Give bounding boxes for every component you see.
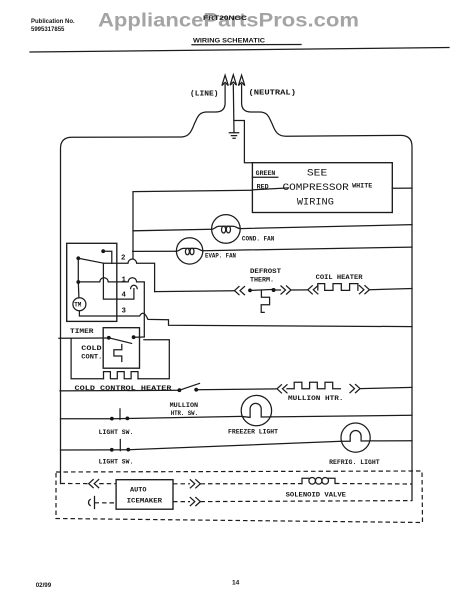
svg-text:Publication No.: Publication No.: [31, 19, 75, 25]
defrost thermostat left dot: [248, 289, 252, 293]
auto icemaker box: [116, 480, 173, 510]
wire pivot to TM: [77, 282, 80, 298]
wire row A right dashed: [173, 483, 190, 485]
svg-text:REFRIG. LIGHT: REFRIG. LIGHT: [329, 459, 380, 466]
wire from blade tip down to row 4: [103, 263, 133, 299]
green terminal line: [252, 176, 277, 178]
wire between pivots: [77, 258, 79, 282]
cold control switch blade: [109, 338, 132, 344]
svg-text:TM: TM: [74, 302, 82, 309]
wire left rail to cold control switch: [59, 337, 109, 339]
light switch 1 left dot: [110, 417, 114, 421]
svg-text:02/99: 02/99: [36, 582, 52, 589]
timer blade upper: [78, 258, 103, 263]
coil heater element: [318, 284, 358, 291]
wire defrost row from timer 2: [155, 290, 235, 293]
svg-text:AUTO: AUTO: [130, 486, 147, 493]
svg-text:COIL HEATER: COIL HEATER: [316, 274, 363, 281]
solenoid valve coil: [302, 478, 335, 483]
wire defrost to coil heater: [291, 289, 308, 291]
svg-text:(LINE): (LINE): [190, 91, 219, 99]
defrost thermostat sensing step: [261, 290, 269, 312]
svg-text:WIRING: WIRING: [297, 197, 334, 208]
wire freezer light row: [61, 418, 112, 420]
svg-text:TIMER: TIMER: [70, 328, 95, 336]
svg-text:1: 1: [122, 277, 127, 285]
wire freezer light to right rail: [272, 415, 412, 417]
title underline: [192, 44, 301, 46]
wire: ground branch to compressor green: [234, 121, 252, 163]
wire: line prong to left rail, down left side: [61, 85, 226, 484]
defrost thermostat right dot: [272, 288, 276, 292]
compressor box: [252, 163, 392, 213]
connector chevrons left of mullion heater: [277, 385, 287, 393]
connector chevrons row A right: [190, 480, 200, 488]
wire coil heater to right rail: [369, 289, 412, 290]
light switch 1 right dot: [126, 417, 130, 421]
wire between dots: [112, 449, 129, 451]
wire icemaker row A dashed: [61, 483, 89, 485]
wire refrig light to right rail: [370, 440, 412, 442]
wire to chevrons right: [274, 289, 281, 291]
plug prong NEUTRAL arrowhead: [238, 75, 244, 85]
svg-text:GREEN: GREEN: [256, 170, 276, 177]
cold control heater element castellations: [104, 372, 139, 379]
wire white to right rail: [392, 187, 412, 189]
wire: neutral prong to right rail, down right side: [242, 85, 412, 501]
svg-text:14: 14: [232, 580, 240, 587]
svg-text:ICEMAKER: ICEMAKER: [127, 497, 163, 504]
red terminal line: [252, 188, 288, 190]
light switch 2 right dot: [126, 448, 130, 452]
timer motor TM circle: [73, 298, 86, 311]
connector chevrons row B right: [190, 498, 200, 506]
connector chevrons left of defrost therm: [235, 287, 245, 295]
cold control outer box: [71, 338, 169, 379]
mullion heater element: [287, 382, 340, 389]
ground symbol: [229, 133, 238, 139]
timer contact 2 terminal dot: [101, 249, 105, 253]
connector chevrons row A: [89, 480, 99, 488]
svg-text:LIGHT SW.: LIGHT SW.: [99, 429, 134, 436]
freezer light lamp: [241, 395, 271, 425]
wire row 1 with two humps, down right side: [78, 278, 144, 337]
icemaker row B water valve symbol: [89, 497, 95, 509]
svg-text:THERM.: THERM.: [250, 276, 274, 283]
connector chevrons right of defrost therm: [281, 286, 291, 294]
wire switch to mullion heater: [196, 388, 276, 391]
light switch 2 plunger: [119, 440, 121, 451]
wire red terminal to left, down to timer contact 2: [133, 190, 252, 258]
svg-text:COMPRESSOR: COMPRESSOR: [283, 183, 349, 194]
wire refrig light row: [61, 449, 112, 451]
plug prong ground arrowhead: [230, 75, 236, 85]
svg-text:SOLENOID VALVE: SOLENOID VALVE: [286, 491, 347, 498]
wire: center prong to ground: [232, 85, 235, 133]
wire to refrig light: [128, 441, 341, 449]
svg-text:LIGHT SW.: LIGHT SW.: [99, 458, 134, 465]
wire to freezer light: [127, 416, 241, 418]
wire right dot to vertical: [134, 336, 145, 338]
condenser fan motor: [212, 215, 241, 244]
svg-text:3: 3: [122, 308, 127, 316]
cold control sensing element step: [114, 345, 122, 362]
svg-text:SEE: SEE: [307, 168, 327, 179]
plug prong LINE arrowhead: [222, 75, 228, 85]
svg-text:COND. FAN: COND. FAN: [242, 235, 275, 242]
wire evaporator fan row: [133, 247, 412, 251]
svg-text:MULLION HTR.: MULLION HTR.: [288, 395, 344, 402]
light switch 2 left dot: [110, 448, 114, 452]
wire row B right dashed: [173, 501, 190, 503]
wire row B dashed left: [95, 502, 117, 504]
wire between dots: [112, 418, 128, 420]
wire solenoid to right rail dashed: [335, 483, 412, 486]
mullion heater switch left dot: [178, 388, 182, 392]
light switch 1 plunger: [119, 409, 121, 420]
cold control switch left dot: [107, 336, 111, 340]
svg-text:DEFROST: DEFROST: [250, 268, 281, 275]
svg-text:FREEZER LIGHT: FREEZER LIGHT: [228, 428, 278, 435]
header rule: [30, 48, 449, 53]
row 4 connector bump: [131, 285, 138, 288]
evaporator fan motor: [176, 238, 202, 264]
refrig light lamp: [341, 423, 370, 452]
svg-text:WIRING SCHEMATIC: WIRING SCHEMATIC: [193, 38, 265, 45]
svg-text:WHITE: WHITE: [352, 182, 372, 189]
wire condenser fan row: [133, 225, 412, 231]
svg-text:(NEUTRAL): (NEUTRAL): [249, 90, 297, 98]
wire row 3 from TM with hop and step: [79, 311, 412, 327]
svg-text:CONT.: CONT.: [81, 353, 102, 360]
svg-text:5995317855: 5995317855: [31, 27, 65, 33]
svg-text:EVAP. FAN: EVAP. FAN: [205, 253, 236, 260]
connector chevrons right of mullion heater: [350, 385, 360, 393]
wire mullion heater row left: [60, 389, 179, 392]
timer pivot dot lower: [76, 280, 80, 284]
svg-text:2: 2: [121, 255, 125, 263]
defrost thermostat blade: [250, 289, 274, 290]
mullion heater switch right dot: [194, 388, 198, 392]
svg-text:FRT20NGC: FRT20NGC: [203, 15, 247, 22]
wire mullion heater to right rail: [360, 387, 412, 388]
timer box: [67, 243, 117, 321]
svg-text:4: 4: [122, 292, 127, 300]
svg-text:COLD: COLD: [81, 345, 102, 352]
icemaker option dashed boundary: [56, 471, 423, 523]
wire contact2 L: [103, 251, 112, 263]
mullion heater switch blade (open): [179, 383, 199, 390]
connector chevrons left of coil heater: [308, 286, 318, 294]
connector chevrons right of coil heater: [359, 286, 369, 294]
svg-text:MULLION: MULLION: [170, 402, 199, 409]
cold control inner box: [103, 328, 139, 369]
svg-text:HTR. SW.: HTR. SW.: [171, 410, 198, 417]
cold control switch right dot: [132, 335, 136, 339]
timer pivot dot upper: [76, 256, 80, 260]
wire row 2 with connector hump: [104, 259, 155, 292]
